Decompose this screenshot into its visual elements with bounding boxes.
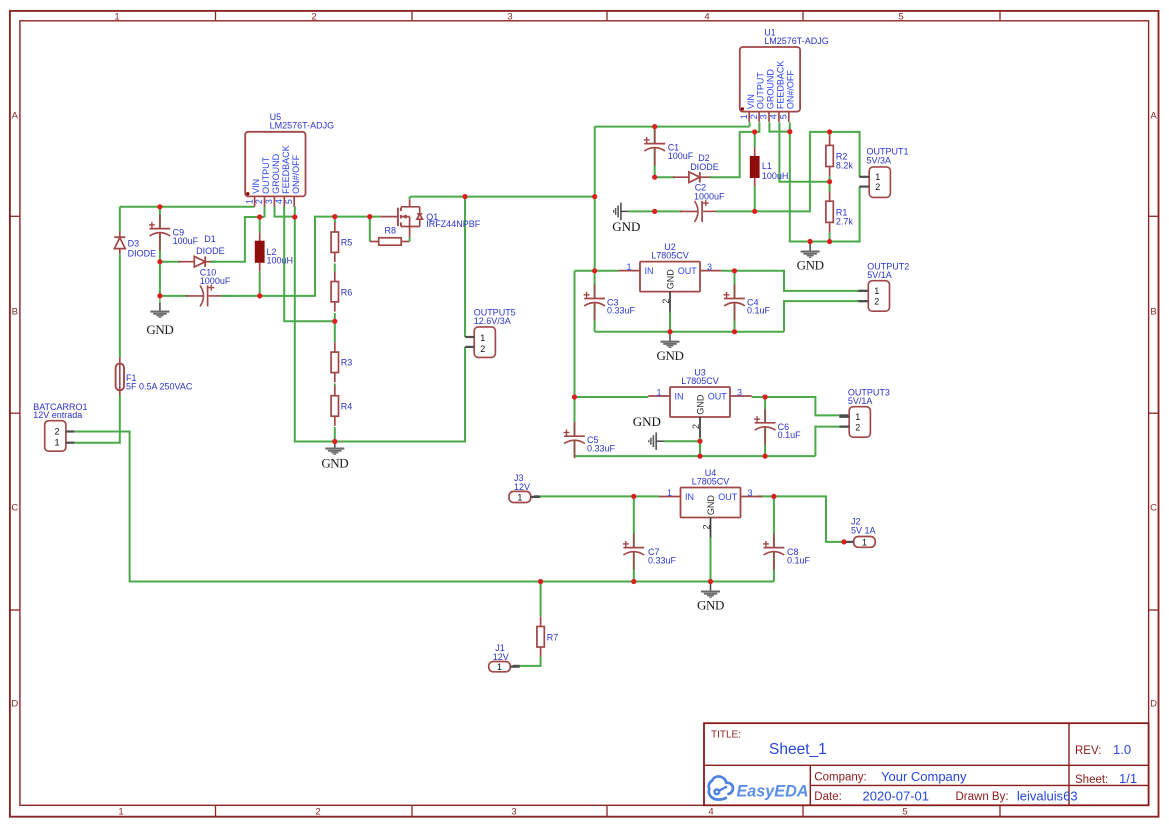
svg-text:8.2k: 8.2k <box>836 160 854 170</box>
svg-text:DIODE: DIODE <box>196 246 225 256</box>
svg-text:GROUND: GROUND <box>271 153 281 193</box>
svg-text:LM2576T-ADJG: LM2576T-ADJG <box>270 121 335 131</box>
svg-text:Drawn By:: Drawn By: <box>956 791 1009 803</box>
svg-text:L7805CV: L7805CV <box>692 477 730 487</box>
svg-text:2: 2 <box>661 299 671 304</box>
svg-text:Sheet_1: Sheet_1 <box>769 741 827 758</box>
svg-text:1: 1 <box>874 286 879 296</box>
svg-text:A: A <box>12 110 19 121</box>
svg-text:2: 2 <box>701 524 711 529</box>
svg-text:Company:: Company: <box>814 772 866 784</box>
svg-text:3: 3 <box>507 11 512 22</box>
svg-text:3: 3 <box>747 488 752 498</box>
svg-text:12.6V/3A: 12.6V/3A <box>474 316 511 326</box>
svg-text:GND: GND <box>321 456 348 471</box>
svg-text:ON#/OFF: ON#/OFF <box>291 154 301 194</box>
svg-text:L7805CV: L7805CV <box>651 251 689 261</box>
svg-text:12V: 12V <box>514 482 530 492</box>
svg-text:leivaluis63: leivaluis63 <box>1017 788 1078 803</box>
svg-text:3: 3 <box>759 114 769 119</box>
svg-text:1: 1 <box>667 488 672 498</box>
svg-text:2020-07-01: 2020-07-01 <box>863 788 930 803</box>
svg-text:1: 1 <box>244 199 254 204</box>
svg-text:2: 2 <box>875 182 880 192</box>
svg-text:R6: R6 <box>341 287 353 297</box>
svg-text:D: D <box>11 698 18 709</box>
svg-text:GND: GND <box>697 597 724 612</box>
svg-text:5V/1A: 5V/1A <box>867 270 892 280</box>
svg-text:GND: GND <box>146 322 173 337</box>
svg-text:100uF: 100uF <box>173 236 199 246</box>
svg-text:GND: GND <box>612 219 640 234</box>
svg-text:B: B <box>12 306 18 317</box>
svg-text:R5: R5 <box>341 238 353 248</box>
svg-text:2: 2 <box>254 199 264 204</box>
svg-text:5F 0.5A 250VAC: 5F 0.5A 250VAC <box>126 382 193 392</box>
svg-text:1: 1 <box>875 172 880 182</box>
svg-text:0.33uF: 0.33uF <box>648 555 677 565</box>
svg-text:1: 1 <box>114 11 119 22</box>
svg-text:R8: R8 <box>385 226 397 236</box>
svg-text:DIODE: DIODE <box>128 248 157 258</box>
svg-text:1: 1 <box>480 333 485 343</box>
svg-text:12V: 12V <box>493 652 509 662</box>
svg-text:1: 1 <box>862 537 867 547</box>
svg-text:GND: GND <box>633 414 661 429</box>
svg-text:2: 2 <box>874 296 879 306</box>
svg-text:FEEDBACK: FEEDBACK <box>281 145 291 194</box>
svg-text:2: 2 <box>855 422 860 432</box>
svg-text:R4: R4 <box>341 402 353 412</box>
svg-text:5: 5 <box>898 11 903 22</box>
svg-text:DIODE: DIODE <box>690 162 719 172</box>
svg-text:3: 3 <box>511 807 516 818</box>
svg-text:2: 2 <box>315 807 320 818</box>
svg-text:ON#/OFF: ON#/OFF <box>785 70 795 110</box>
svg-text:2: 2 <box>55 427 60 437</box>
svg-text:4: 4 <box>704 11 709 22</box>
svg-text:C: C <box>1150 502 1157 513</box>
svg-text:0.33uF: 0.33uF <box>607 306 636 316</box>
svg-text:IN: IN <box>675 391 684 401</box>
svg-text:1.0: 1.0 <box>1113 742 1131 757</box>
svg-text:1: 1 <box>497 662 502 672</box>
svg-text:REV:: REV: <box>1075 745 1101 757</box>
svg-text:5V/1A: 5V/1A <box>848 396 873 406</box>
svg-text:5V 1A: 5V 1A <box>851 526 876 536</box>
svg-text:Date:: Date: <box>814 791 842 803</box>
svg-text:1: 1 <box>55 438 60 448</box>
svg-text:A: A <box>1150 110 1157 121</box>
svg-text:VIN: VIN <box>251 179 261 194</box>
svg-text:1: 1 <box>517 492 522 502</box>
svg-text:L1: L1 <box>762 161 772 171</box>
svg-text:0.1uF: 0.1uF <box>787 555 811 565</box>
svg-text:2.7k: 2.7k <box>836 216 854 226</box>
svg-text:3: 3 <box>264 199 274 204</box>
svg-text:TITLE:: TITLE: <box>711 730 741 741</box>
svg-text:4: 4 <box>708 807 713 818</box>
svg-text:IRFZ44NPBF: IRFZ44NPBF <box>426 219 481 229</box>
svg-text:L7805CV: L7805CV <box>681 376 719 386</box>
svg-text:IN: IN <box>645 266 654 276</box>
svg-text:1: 1 <box>118 807 123 818</box>
svg-text:1000uF: 1000uF <box>694 191 725 201</box>
svg-text:FEEDBACK: FEEDBACK <box>776 61 786 110</box>
svg-text:100uF: 100uF <box>668 151 694 161</box>
svg-text:C: C <box>11 502 18 513</box>
svg-text:5: 5 <box>284 199 294 204</box>
svg-text:Your Company: Your Company <box>881 769 967 784</box>
svg-text:D: D <box>1150 698 1157 709</box>
svg-text:0.1uF: 0.1uF <box>778 430 802 440</box>
svg-text:R7: R7 <box>547 633 559 643</box>
svg-text:3: 3 <box>707 262 712 272</box>
svg-text:B: B <box>1150 306 1156 317</box>
svg-text:GND: GND <box>666 269 676 290</box>
svg-text:OUT: OUT <box>708 391 728 401</box>
svg-text:1: 1 <box>656 387 661 397</box>
svg-text:5: 5 <box>779 114 789 119</box>
svg-text:0.1uF: 0.1uF <box>747 306 771 316</box>
svg-text:5V/3A: 5V/3A <box>867 156 892 166</box>
svg-text:1: 1 <box>626 262 631 272</box>
svg-text:5: 5 <box>902 807 907 818</box>
svg-text:1: 1 <box>739 114 749 119</box>
svg-text:IN: IN <box>685 492 694 502</box>
svg-text:GND: GND <box>706 495 716 516</box>
svg-text:2: 2 <box>311 11 316 22</box>
svg-text:1000uF: 1000uF <box>200 276 231 286</box>
svg-text:0.33uF: 0.33uF <box>587 443 616 453</box>
svg-text:LM2576T-ADJG: LM2576T-ADJG <box>764 36 829 46</box>
svg-text:2: 2 <box>691 424 701 429</box>
svg-text:2: 2 <box>749 114 759 119</box>
svg-text:VIN: VIN <box>746 94 756 109</box>
svg-text:D3: D3 <box>128 239 140 249</box>
svg-text:GND: GND <box>797 258 824 273</box>
svg-text:OUT: OUT <box>718 492 738 502</box>
svg-text:D1: D1 <box>204 234 216 244</box>
svg-text:OUT: OUT <box>678 266 698 276</box>
svg-text:OUTPUT: OUTPUT <box>261 156 271 194</box>
svg-text:Sheet:: Sheet: <box>1075 774 1108 786</box>
svg-text:4: 4 <box>274 199 284 204</box>
svg-text:GND: GND <box>696 394 706 415</box>
svg-text:1: 1 <box>855 412 860 422</box>
svg-text:EasyEDA: EasyEDA <box>737 783 809 801</box>
svg-text:100uH: 100uH <box>267 256 294 266</box>
svg-text:4: 4 <box>769 114 779 119</box>
svg-text:OUTPUT: OUTPUT <box>756 72 766 110</box>
svg-text:GROUND: GROUND <box>766 69 776 109</box>
svg-text:2: 2 <box>480 344 485 354</box>
svg-text:100uH: 100uH <box>762 171 789 181</box>
svg-text:3: 3 <box>737 387 742 397</box>
svg-text:GND: GND <box>657 348 684 363</box>
svg-text:R3: R3 <box>341 358 353 368</box>
svg-text:1/1: 1/1 <box>1119 771 1137 786</box>
svg-text:12V entrada: 12V entrada <box>33 410 82 420</box>
